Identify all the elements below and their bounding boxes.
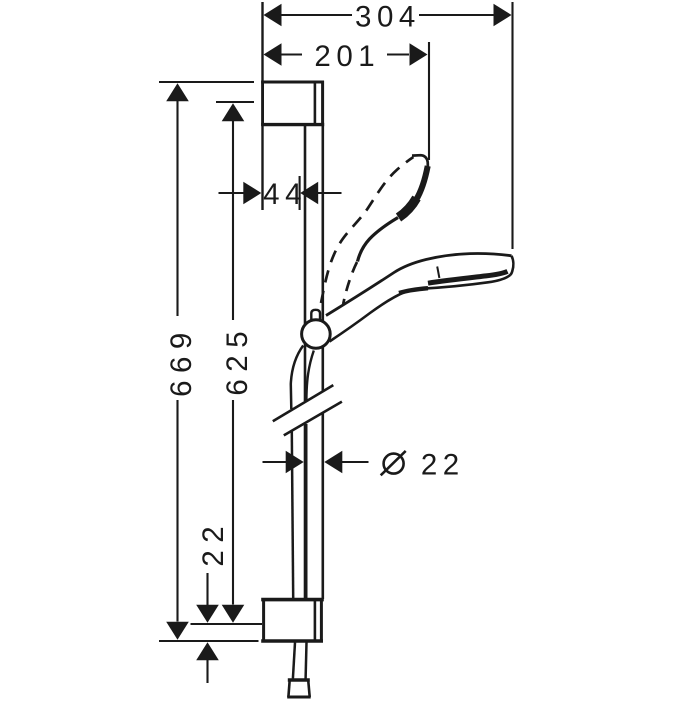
rail right edge (321, 126, 324, 391)
dimension 44 (219, 192, 246, 194)
head spray face dark band (428, 271, 508, 283)
knob stub (311, 310, 320, 321)
bend thickening (399, 288, 428, 293)
dashed head spray face heavy band (416, 166, 428, 200)
head bottom outline (406, 275, 511, 292)
head right end (511, 256, 514, 275)
hose right edge (306, 351, 313, 402)
extension line right for 304 (511, 2, 513, 249)
extension line right for 201 (428, 42, 430, 160)
svg-text:669: 669 (165, 325, 198, 397)
handle + head white fill (326, 254, 513, 342)
diameter symbol (384, 454, 404, 474)
dim 669 vertical line (166, 83, 189, 101)
top wall bracket (261, 81, 324, 126)
handle bottom edge (330, 292, 407, 342)
dim 625 top tick (216, 101, 254, 103)
svg-text:625: 625 (221, 324, 254, 396)
break line 1 (273, 385, 334, 421)
bottom wall bracket (261, 598, 324, 643)
rail left edge (304, 126, 307, 401)
dim 669 top tick (159, 81, 254, 83)
head face tick (437, 267, 439, 279)
hose end fitting (288, 678, 310, 682)
svg-text:22: 22 (197, 519, 230, 567)
dimension 304 line (280, 14, 352, 16)
dimension 201 line (280, 53, 302, 55)
dashed head tip (412, 155, 428, 170)
tick 44 right reference (299, 176, 301, 210)
extension line left (wall plane) (261, 2, 263, 210)
dim 22 bottom (206, 573, 208, 605)
dim 669 bottom tick (159, 640, 259, 642)
dim 625 vertical line (222, 103, 245, 121)
dim diameter 22 (263, 461, 287, 463)
dashed handshower upper position: left outline (321, 157, 413, 303)
svg-text:304: 304 (355, 0, 421, 33)
hose left edge (291, 346, 303, 410)
break line 2 (284, 402, 342, 436)
hose below bracket (293, 643, 295, 679)
svg-text:201: 201 (314, 40, 380, 73)
arrow right 304 (494, 4, 512, 27)
dashed band tail (358, 218, 399, 262)
arrow left 304 (264, 4, 282, 27)
arrow left 201 (264, 43, 282, 66)
dashed continuation to knob (343, 262, 357, 304)
arrow right 201 (410, 43, 428, 66)
svg-text:44: 44 (263, 178, 307, 211)
slider knob (302, 320, 331, 349)
svg-text:22: 22 (421, 449, 465, 482)
handle top edge + head top outline (326, 254, 512, 316)
dim 625 bottom reference line (191, 623, 263, 625)
